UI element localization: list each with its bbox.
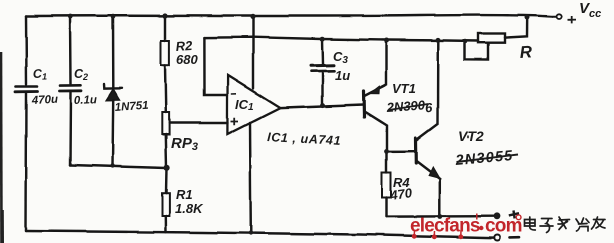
svg-text:VT1: VT1 — [392, 81, 416, 96]
svg-text:1N751: 1N751 — [114, 100, 149, 114]
svg-text:C1: C1 — [33, 67, 48, 82]
svg-text:1u: 1u — [335, 68, 350, 83]
svg-text:RP3: RP3 — [171, 135, 198, 153]
svg-text:470u: 470u — [31, 94, 59, 107]
svg-text:IC1: IC1 — [235, 97, 254, 113]
svg-text:C2: C2 — [74, 67, 88, 82]
svg-text:elecfans: elecfans — [410, 216, 480, 237]
svg-text:1.8K: 1.8K — [175, 201, 204, 216]
svg-text:VT2: VT2 — [458, 128, 484, 144]
svg-text:0.1u: 0.1u — [74, 94, 97, 107]
svg-text:680: 680 — [176, 52, 198, 67]
svg-text:470: 470 — [388, 185, 413, 203]
svg-text:R: R — [519, 42, 533, 62]
svg-text:Vcc: Vcc — [579, 0, 601, 20]
svg-text:IC1 , uA741: IC1 , uA741 — [267, 130, 342, 148]
svg-text:R1: R1 — [176, 187, 193, 202]
svg-text:C3: C3 — [333, 49, 348, 66]
